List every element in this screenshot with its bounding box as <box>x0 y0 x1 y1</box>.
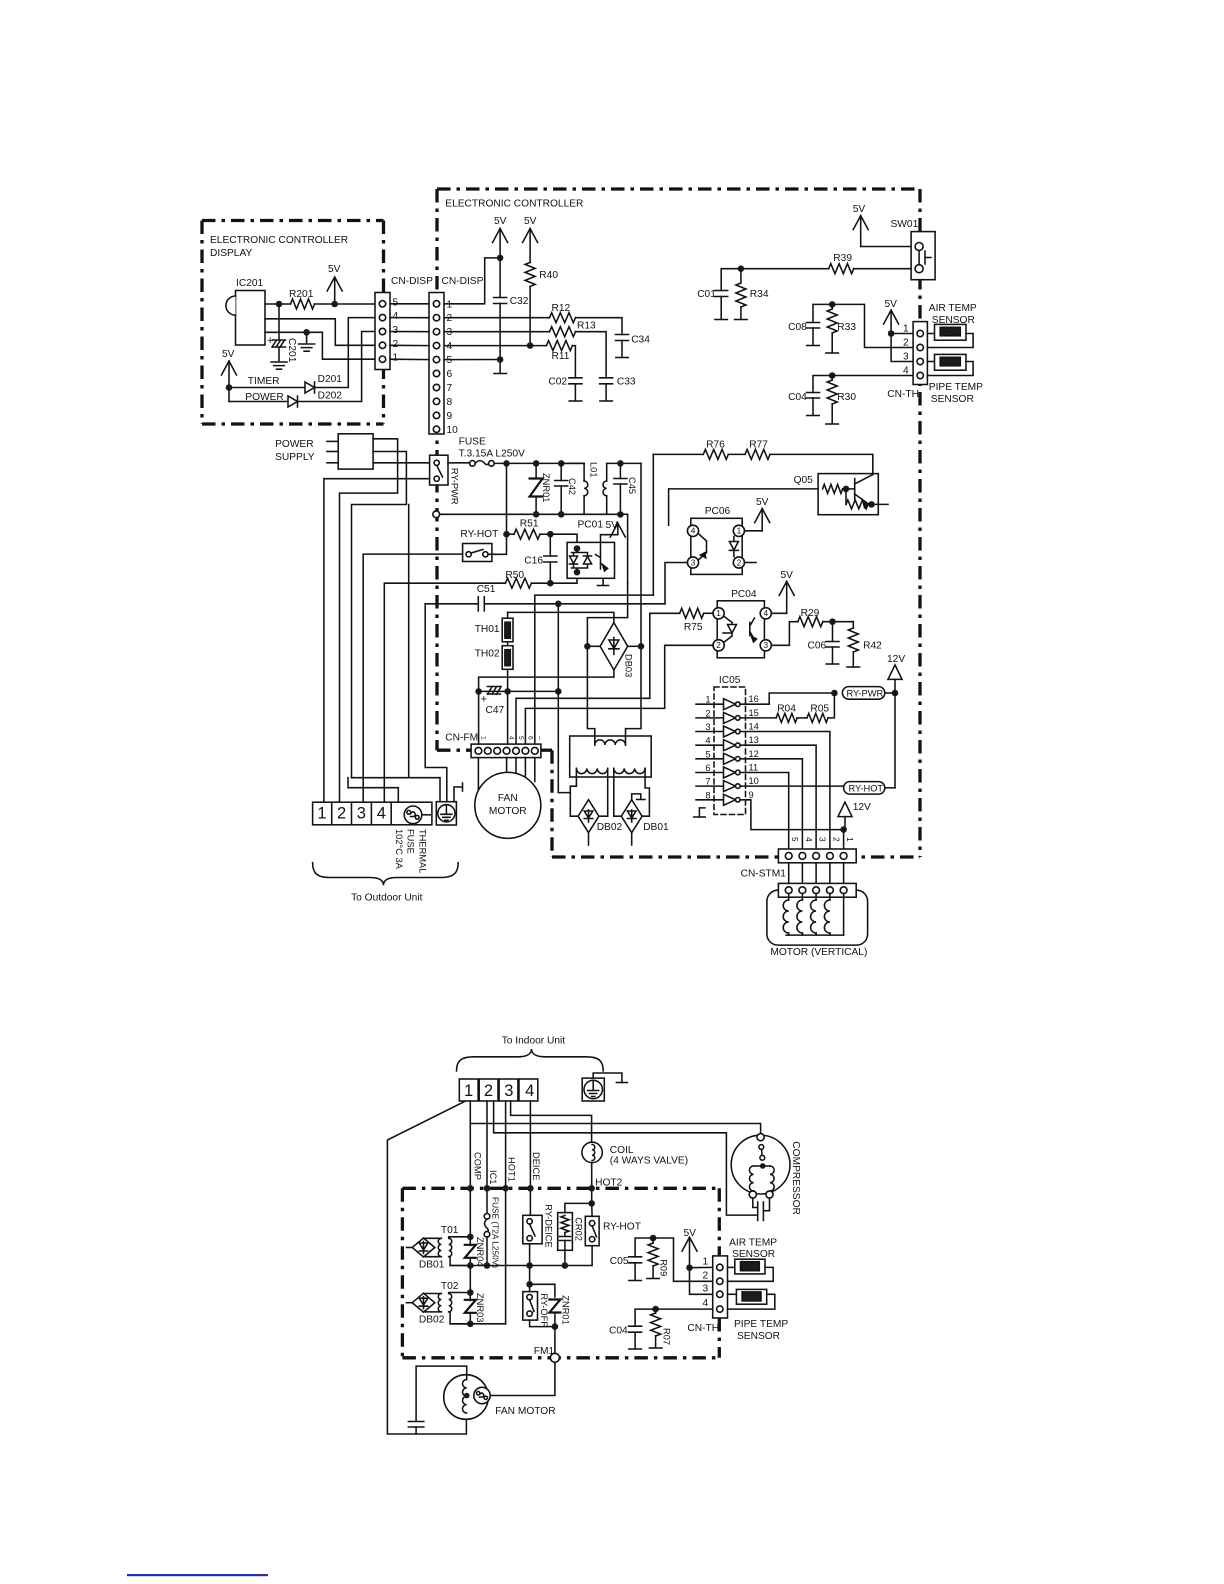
svg-text:C32: C32 <box>510 296 529 307</box>
svg-text:3: 3 <box>818 837 828 842</box>
wire R12 to C34 <box>576 318 623 335</box>
ground symbol on IC201 pin3 <box>306 332 308 343</box>
fan motor <box>475 772 541 838</box>
wire PS to RY-PWR <box>373 462 430 464</box>
capacitor C16 <box>549 534 551 556</box>
optocoupler PC04 <box>717 601 764 658</box>
wire CN-FM pin6 riser to PC04 pin2 <box>525 645 713 744</box>
svg-text:C33: C33 <box>617 377 636 388</box>
svg-text:HOT1: HOT1 <box>507 1157 517 1182</box>
wire CN-FM pin5 riser to R75 <box>516 613 650 744</box>
motor vertical body <box>767 890 868 945</box>
svg-text:12V: 12V <box>887 654 905 665</box>
end bar below C04 bottom <box>629 1348 642 1350</box>
wire 12V node to CN-STM1 pin1 <box>843 830 845 849</box>
node T01 top <box>467 1234 474 1241</box>
electronic controller display box border <box>202 219 384 222</box>
end bar below R34 <box>735 319 748 321</box>
svg-text:PC06: PC06 <box>705 506 731 517</box>
svg-text:C47: C47 <box>486 705 505 716</box>
capacitor C32 <box>499 258 501 298</box>
IC05 gate 3 <box>696 731 724 733</box>
PC04 pin 2 <box>713 640 724 651</box>
wire T01 bottom to common row <box>449 1257 471 1266</box>
pipe temp sensor bottom <box>728 1293 737 1295</box>
svg-text:+: + <box>481 694 487 706</box>
svg-text:1: 1 <box>716 608 721 618</box>
CN-TH bottom pin 1 <box>717 1264 723 1270</box>
wire CN-FM pin7 riser to R76 riser <box>535 595 654 744</box>
wire RY-HOT bottom to common row <box>591 1246 593 1266</box>
svg-text:T02: T02 <box>441 1281 459 1292</box>
svg-text:1: 1 <box>464 1082 473 1100</box>
thermistor TH02 <box>507 642 509 646</box>
node C04/R07 <box>652 1306 659 1313</box>
wire fan motor left loop <box>416 1366 467 1421</box>
svg-text:FM1: FM1 <box>534 1346 555 1357</box>
terminal strip outdoor <box>313 802 432 825</box>
capacitor C04 bottom <box>635 1309 656 1326</box>
chassis mark indoor <box>593 1073 622 1083</box>
wire IC05 pin16 to RY-PWR coil <box>740 693 834 704</box>
snubber CR02 <box>558 1213 573 1251</box>
svg-text:5: 5 <box>790 837 800 842</box>
node C05/R09 <box>650 1235 657 1242</box>
svg-text:5V: 5V <box>853 204 866 215</box>
wire IC05 pin12 to CN-STM1 pin4 <box>740 759 802 849</box>
svg-text:C34: C34 <box>631 335 650 346</box>
node C51 row <box>555 601 562 608</box>
svg-text:1: 1 <box>447 299 453 310</box>
wire COMP line <box>469 1101 471 1237</box>
wire IC1 line <box>486 1101 488 1213</box>
wire T02 top to ZNR line <box>449 1293 471 1294</box>
wire cell3 to coil <box>511 1101 592 1142</box>
node DEICE on box border <box>527 1185 534 1192</box>
CN-TH pin 4 <box>917 372 923 378</box>
wire fuse row down to DB03 right <box>640 463 642 646</box>
5V arrow bottom <box>689 1237 691 1268</box>
node on R201 left <box>276 301 283 308</box>
5V arrow PC06 pin1 <box>745 530 763 532</box>
svg-text:3: 3 <box>703 1283 709 1294</box>
svg-text:R75: R75 <box>684 622 703 633</box>
node ZNR01 bottom <box>552 1323 559 1330</box>
svg-text:2: 2 <box>903 338 909 349</box>
svg-text:COMP: COMP <box>473 1152 483 1180</box>
svg-text:CN-TH: CN-TH <box>687 1323 719 1334</box>
svg-text:RY-HOT: RY-HOT <box>849 783 884 793</box>
resistor R34 <box>740 269 742 283</box>
diode D201 <box>305 382 315 393</box>
pipe temp sensor top <box>927 361 934 363</box>
IC201 remote sensor <box>236 291 266 346</box>
svg-text:C01: C01 <box>697 289 716 300</box>
CN-TH bottom pin 2 <box>717 1278 723 1284</box>
end bar below C34 <box>616 357 629 359</box>
svg-text:R51: R51 <box>520 519 539 530</box>
fan motor bottom <box>444 1375 489 1420</box>
svg-text:To Outdoor Unit: To Outdoor Unit <box>351 893 423 904</box>
wire PC04 pin3 to R29 <box>771 622 797 646</box>
DB01 bottom stub <box>631 833 633 845</box>
wire IC05 pin13 to CN-STM1 pin3 <box>740 745 816 849</box>
svg-text:FUSE: FUSE <box>406 829 416 854</box>
capacitor C45 <box>619 463 621 478</box>
DB01 top chassis hook <box>632 794 641 800</box>
node HOT2 on box border <box>588 1185 595 1192</box>
node ZNR01 bottom <box>533 511 540 518</box>
IC05 pin8 hook <box>699 808 705 817</box>
fuse row wire <box>494 462 584 464</box>
svg-text:5: 5 <box>393 297 399 308</box>
svg-text:R77: R77 <box>749 440 768 451</box>
connector CN-TH top section <box>913 322 927 385</box>
wire R13 to C33 <box>576 332 607 378</box>
resistor R75 <box>680 608 704 618</box>
footer rule <box>127 1574 268 1576</box>
svg-text:5V: 5V <box>328 264 341 275</box>
svg-text:FAN: FAN <box>498 793 518 804</box>
svg-text:9: 9 <box>447 411 453 422</box>
wire pin3 row <box>444 331 550 333</box>
relay contact RY-PWR <box>430 455 448 485</box>
capacitor C04 top section <box>813 376 832 393</box>
resistor R09 <box>652 1238 654 1243</box>
PC06 internal phototransistor <box>699 534 707 560</box>
node ground junction <box>303 329 310 336</box>
svg-text:2: 2 <box>737 557 742 567</box>
svg-text:1: 1 <box>317 805 326 823</box>
svg-text:4: 4 <box>377 805 386 823</box>
svg-text:3: 3 <box>763 640 768 650</box>
compressor windings <box>754 1165 770 1167</box>
wire DB03 left to primary <box>587 646 594 745</box>
wire PC01 collector to 5V <box>601 535 618 552</box>
varistor ZNR01 bottom section <box>549 1300 560 1313</box>
diode D202 <box>288 396 298 407</box>
5V arrow at PC01 <box>617 523 619 535</box>
node 5V/R201 <box>331 301 338 308</box>
svg-text:ZNR01: ZNR01 <box>541 473 551 502</box>
wire RY-HOT right to R51 node <box>488 536 507 554</box>
svg-text:1: 1 <box>737 526 742 536</box>
wire Q05 emitter stub <box>872 503 889 505</box>
svg-text:MOTOR (VERTICAL): MOTOR (VERTICAL) <box>770 947 867 958</box>
thermal fuse symbol <box>404 806 422 824</box>
wire RY-DEICE to common row <box>529 1244 531 1266</box>
PC01 emitter to ground bar <box>602 578 604 585</box>
wire 5V to pin3 bottom <box>690 1268 713 1295</box>
IC05 gate 1 <box>696 703 724 705</box>
svg-text:T01: T01 <box>441 1225 459 1236</box>
svg-text:4: 4 <box>703 1298 709 1309</box>
node 5V pin1 <box>888 330 895 337</box>
svg-text:TH01: TH01 <box>475 624 500 635</box>
svg-text:R05: R05 <box>810 704 829 715</box>
svg-text:4: 4 <box>705 736 710 746</box>
svg-text:PIPE TEMP: PIPE TEMP <box>929 382 983 393</box>
connector CN-STM1 top half <box>778 849 856 863</box>
svg-text:3: 3 <box>691 557 696 567</box>
wire C51 row left to earth square <box>425 604 478 802</box>
wire T01 top to COMP node <box>449 1237 471 1239</box>
svg-text:1: 1 <box>845 837 855 842</box>
CN-TH pin 3 <box>917 358 923 364</box>
end bar below R33 <box>826 352 839 354</box>
resistor R51 <box>507 533 515 535</box>
5V arrow over R40 <box>529 229 531 263</box>
wire IC201 pin2 to CN-DISP pin2 <box>265 319 375 346</box>
wire R40 to pin4 node <box>529 286 531 345</box>
svg-text:COMPRESSOR: COMPRESSOR <box>790 1141 801 1215</box>
PC04 pin 3 <box>760 640 771 651</box>
capacitor C06 <box>832 622 834 642</box>
svg-text:14: 14 <box>749 722 759 732</box>
PC06 pin 3 <box>687 557 698 568</box>
svg-text:RY-HOT: RY-HOT <box>460 529 498 540</box>
CN-DISP controller pin 3 <box>433 329 439 335</box>
svg-text:R30: R30 <box>837 392 856 403</box>
node R50 right <box>531 582 550 584</box>
svg-text:5V: 5V <box>781 570 794 581</box>
wire Q05 base to PC06 pin4 <box>669 489 819 525</box>
wire PC06 pin3 to C51 row <box>665 563 687 604</box>
svg-text:5V: 5V <box>606 520 619 531</box>
end bar below C04 <box>807 415 820 417</box>
svg-text:Q05: Q05 <box>794 475 814 486</box>
svg-text:15: 15 <box>749 708 759 718</box>
wire PS to terminal2 <box>340 439 398 802</box>
resistor R29 <box>798 617 823 627</box>
wire TIMER line <box>229 387 305 389</box>
svg-text:6: 6 <box>526 736 533 740</box>
connector CN-FM <box>471 744 541 758</box>
svg-text:SENSOR: SENSOR <box>737 1331 780 1342</box>
CN-DISP controller pin 4 <box>433 342 439 348</box>
wire R39 left to C01/R34 <box>741 268 829 270</box>
wire riser to R76 row <box>652 454 654 595</box>
wire IC05 pin15 R04 R05 <box>740 717 776 719</box>
capacitor C05 <box>635 1238 653 1257</box>
IC05 gate 2 <box>696 717 724 719</box>
svg-text:TIMER: TIMER <box>248 376 280 387</box>
svg-text:4: 4 <box>903 366 909 377</box>
air temp sensor bottom <box>728 1266 735 1268</box>
svg-text:T.3.15A L250V: T.3.15A L250V <box>459 449 525 460</box>
wire RY-PWR to 12V node <box>885 692 895 694</box>
motor common bus <box>786 934 844 936</box>
svg-text:C16: C16 <box>524 556 543 567</box>
PC04 internal phototransistor <box>750 618 755 640</box>
svg-text:5: 5 <box>447 355 453 366</box>
coil 4 ways valve <box>582 1142 602 1162</box>
PC04 internal LED <box>724 617 732 643</box>
svg-text:8: 8 <box>705 790 710 800</box>
wire IC201 pin3 to CN-DISP pin1 <box>265 332 375 359</box>
svg-text:5: 5 <box>705 749 710 759</box>
bridge DB01 bottom section <box>412 1238 435 1257</box>
node C47 row right <box>555 688 562 695</box>
end bar below C05 <box>629 1280 642 1282</box>
node HOT2 inner <box>588 1200 595 1207</box>
wire coil to HOT2 <box>591 1163 593 1204</box>
resistor R04 <box>776 713 797 722</box>
wire TH02 to CN-FM pin4 <box>507 691 509 744</box>
svg-text:4: 4 <box>804 837 814 842</box>
wire C08/R33 to CN-TH pin2 <box>832 304 913 347</box>
svg-text:11: 11 <box>749 763 759 773</box>
node ZNR04 bottom <box>467 1262 474 1269</box>
node RY-DEICE bottom <box>526 1262 533 1269</box>
node ZNR01 top row <box>526 1281 533 1288</box>
svg-text:1: 1 <box>705 695 710 705</box>
svg-text:FUSE (T2A L250V): FUSE (T2A L250V) <box>490 1197 500 1268</box>
node TIMER line <box>226 384 233 391</box>
svg-text:5V: 5V <box>494 216 507 227</box>
svg-text:HOT2: HOT2 <box>595 1178 623 1189</box>
svg-text:5V: 5V <box>524 216 537 227</box>
svg-text:D201: D201 <box>318 374 343 385</box>
terminal block indoor cell3 <box>499 1079 518 1101</box>
svg-text:4: 4 <box>447 341 453 352</box>
svg-text:13: 13 <box>749 735 759 745</box>
CN-TH bottom pin 4 <box>717 1306 723 1312</box>
PC06 pin 2 <box>733 557 744 568</box>
svg-text:102°C 3A: 102°C 3A <box>394 829 404 870</box>
fan motor thermal protector <box>474 1387 490 1403</box>
wire R50 node to PC01 pin2 <box>550 572 577 583</box>
power supply stub wires <box>327 440 338 442</box>
svg-text:1: 1 <box>480 736 487 740</box>
wire bundle vertical to thermal fuse cell <box>408 505 410 778</box>
CN-DISP controller pin 6 <box>433 370 439 376</box>
wire TH01 top to DB03 top <box>508 612 614 622</box>
IC05 dashed box <box>714 687 746 815</box>
IC05 gate 8 <box>696 799 724 801</box>
node COMP on box border <box>467 1185 474 1192</box>
svg-text:3: 3 <box>393 325 399 336</box>
resistor R13 <box>550 327 576 337</box>
node C47 left <box>475 688 482 695</box>
CN-FM pin 6 <box>522 747 529 754</box>
IC05 gate 6 <box>696 772 724 774</box>
node C42 bottom <box>558 511 565 518</box>
bridge DB02 <box>578 800 599 833</box>
svg-text:C04: C04 <box>788 392 807 403</box>
motor windings <box>788 894 790 900</box>
wire PS to terminal3 via bundle <box>352 452 407 778</box>
ground below C201 <box>271 362 287 369</box>
bridge DB03 <box>600 623 628 670</box>
svg-text:1: 1 <box>903 324 909 335</box>
node C45 bottom <box>617 511 624 518</box>
fuse symbol top <box>448 462 470 464</box>
svg-text:DB02: DB02 <box>597 822 623 833</box>
svg-text:DB03: DB03 <box>624 654 634 677</box>
svg-text:R12: R12 <box>552 303 571 314</box>
svg-text:4: 4 <box>508 736 515 740</box>
CN-TH pin 2 <box>917 344 923 350</box>
electronic controller box border <box>437 187 920 190</box>
svg-text:AIR TEMP: AIR TEMP <box>929 303 977 314</box>
svg-text:IC201: IC201 <box>236 278 264 289</box>
wire RY-HOT left to bundle <box>363 554 462 802</box>
svg-text:6: 6 <box>447 369 453 380</box>
end bar below R42 <box>847 666 860 668</box>
earth terminal square <box>436 802 456 825</box>
relay contact RY-DEICE <box>523 1215 542 1244</box>
node DB03 left <box>587 645 600 647</box>
wire left secondary to DB02 <box>570 777 577 816</box>
svg-text:R39: R39 <box>833 253 852 264</box>
node C08/R33 <box>829 301 836 308</box>
svg-text:2: 2 <box>447 313 453 324</box>
svg-text:5V: 5V <box>684 1228 697 1239</box>
end bar below C33 <box>600 400 613 402</box>
svg-text:MOTOR: MOTOR <box>489 806 527 817</box>
wire fan motor to FM1 <box>490 1362 555 1395</box>
wire C47 node down to DB02 <box>557 604 559 692</box>
svg-text:3: 3 <box>504 1082 513 1100</box>
transformer primary winding <box>595 740 626 745</box>
resistor R11 <box>546 341 572 351</box>
terminal block indoor cell1 <box>459 1079 478 1101</box>
svg-text:C51: C51 <box>477 584 496 595</box>
PC04 pin 1 <box>713 608 724 619</box>
chassis hook near earth square <box>454 787 463 802</box>
PC06 pin 4 <box>687 525 698 536</box>
svg-text:4: 4 <box>393 311 399 322</box>
capacitor fan motor <box>408 1422 423 1428</box>
node R40/pin4 <box>527 342 534 349</box>
node ZNR03 bottom <box>467 1321 474 1328</box>
bridge DB01 <box>621 800 642 833</box>
wire R50 row to terminal4 <box>384 583 505 802</box>
wire to compressor top <box>470 1124 760 1134</box>
end bar below R07 <box>649 1347 662 1349</box>
resistor R40 <box>525 262 535 286</box>
end bar below C32 <box>494 373 507 375</box>
svg-text:(4 WAYS VALVE): (4 WAYS VALVE) <box>610 1156 688 1167</box>
CN-DISP display pin 1 <box>379 356 385 362</box>
wire IC05 pin14 to CN-STM1 pin2 <box>740 732 830 850</box>
wire C04/R07 to pin4 <box>656 1308 713 1310</box>
connector CN-DISP controller side <box>429 293 444 435</box>
wire RY-PWR to terminal1 <box>324 479 430 803</box>
svg-text:CN-STM1: CN-STM1 <box>741 869 787 880</box>
CN-DISP controller pin 5 <box>433 356 439 362</box>
transformer box <box>570 736 652 777</box>
svg-text:SUPPLY: SUPPLY <box>275 452 315 463</box>
wire R76 row <box>653 453 703 455</box>
node R51 left <box>503 531 510 538</box>
svg-text:C201: C201 <box>286 338 297 363</box>
svg-text:SENSOR: SENSOR <box>732 1249 775 1260</box>
resistor R33 <box>831 304 833 309</box>
wire 5V to pin1 <box>891 333 913 335</box>
HOT1 bottom row <box>450 1323 506 1325</box>
end bar below R09 <box>647 1278 660 1280</box>
wire HOT2 node to RY-HOT <box>591 1203 593 1216</box>
connector CN-TH bottom <box>713 1256 728 1318</box>
svg-text:8: 8 <box>447 397 453 408</box>
connector CN-STM1 motor half <box>788 863 790 884</box>
svg-text:DB01: DB01 <box>643 822 669 833</box>
svg-text:5V: 5V <box>885 299 898 310</box>
5V arrow for SW01 <box>860 216 862 247</box>
wire IC201 pin1 row <box>265 303 291 305</box>
